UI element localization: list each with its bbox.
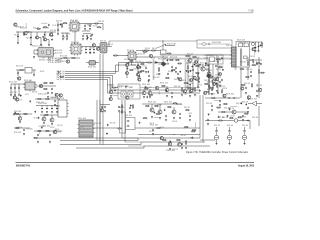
wire net SWB bbox=[141, 141, 205, 143]
capacitor C28 bbox=[256, 90, 258, 92]
capacitor C26 bbox=[256, 63, 258, 65]
capacitor C42 bbox=[49, 134, 51, 136]
wire bbox=[149, 89, 151, 91]
label bbox=[48, 57, 61, 64]
resistor R24 bbox=[216, 59, 221, 60]
ground bbox=[62, 38, 64, 40]
capacitor C80 bbox=[146, 96, 148, 98]
resistor R68 bbox=[223, 104, 228, 105]
resistor R73 bbox=[209, 76, 214, 77]
wire bbox=[83, 33, 91, 35]
label bbox=[82, 31, 91, 33]
svg-text:R101 10K: R101 10K bbox=[32, 46, 45, 48]
resistor R42 bbox=[122, 104, 123, 109]
label bbox=[55, 106, 60, 108]
svg-text:R101 10K: R101 10K bbox=[240, 61, 246, 63]
label bbox=[218, 117, 225, 119]
ground bbox=[229, 143, 231, 145]
label bbox=[119, 107, 125, 109]
wire bbox=[34, 53, 38, 55]
wire bbox=[167, 63, 170, 65]
part inside U0501b bbox=[244, 43, 248, 47]
capacitor C105 bbox=[241, 102, 243, 104]
label bbox=[236, 103, 243, 105]
resistor R69 bbox=[229, 118, 234, 119]
label bbox=[167, 44, 177, 46]
transistor Q45 bbox=[55, 93, 58, 96]
ground bbox=[129, 111, 131, 113]
ground bbox=[165, 119, 167, 121]
label bbox=[26, 129, 32, 131]
label bbox=[182, 80, 186, 82]
capacitor C37 bbox=[46, 107, 48, 109]
wire bbox=[126, 62, 128, 78]
label bbox=[244, 83, 251, 85]
svg-text:R101 10K: R101 10K bbox=[242, 125, 249, 127]
wire bbox=[136, 50, 163, 52]
resistor R23 bbox=[195, 73, 200, 74]
svg-text:R101 10K: R101 10K bbox=[127, 86, 132, 88]
svg-text:R101 10K: R101 10K bbox=[226, 45, 233, 47]
svg-text:R101 10K: R101 10K bbox=[246, 69, 253, 71]
svg-text:R101 10K: R101 10K bbox=[142, 50, 146, 52]
capacitor C94 bbox=[14, 112, 16, 114]
ground bbox=[190, 70, 192, 72]
svg-text:R101 10K: R101 10K bbox=[14, 35, 20, 37]
wire bbox=[137, 63, 139, 80]
capacitor C5 bbox=[57, 29, 59, 31]
label bbox=[214, 77, 222, 79]
capacitor C29 bbox=[17, 72, 19, 74]
resistor R57 bbox=[211, 98, 216, 99]
capacitor C14 bbox=[89, 48, 91, 50]
capacitor C34 bbox=[18, 87, 20, 89]
svg-text:R101 10K: R101 10K bbox=[93, 26, 97, 28]
svg-text:R101 10K: R101 10K bbox=[151, 58, 155, 60]
svg-text:R101 10K: R101 10K bbox=[117, 86, 122, 88]
ground bbox=[42, 36, 44, 38]
wire bbox=[256, 59, 262, 61]
label bbox=[117, 86, 122, 88]
ground bbox=[242, 119, 244, 121]
label bbox=[226, 45, 233, 47]
transistor Q57 bbox=[149, 54, 152, 57]
label bbox=[141, 62, 148, 64]
wire bbox=[40, 114, 60, 116]
svg-text:R101 10K: R101 10K bbox=[87, 24, 92, 26]
resistor R49 bbox=[156, 128, 161, 129]
wire bbox=[257, 103, 263, 105]
svg-text:R101 10K: R101 10K bbox=[18, 100, 22, 102]
label bbox=[160, 127, 164, 129]
ground bbox=[148, 79, 150, 81]
capacitor C75 bbox=[189, 84, 191, 86]
wire bbox=[44, 32, 46, 38]
ground bbox=[17, 77, 19, 79]
transistor Q11 bbox=[258, 88, 262, 92]
ground bbox=[14, 94, 16, 96]
label bbox=[107, 85, 115, 87]
wire bbox=[158, 91, 160, 95]
label bbox=[189, 113, 193, 115]
transistor Q27 bbox=[190, 79, 193, 82]
ground bbox=[23, 133, 25, 135]
resistor R31 bbox=[43, 83, 48, 84]
resistor R2 bbox=[25, 32, 30, 33]
ground bbox=[101, 110, 103, 112]
capacitor C106 bbox=[229, 108, 231, 110]
wire bbox=[19, 114, 21, 117]
wire bottom band bbox=[140, 87, 200, 89]
bus band RAW_B bbox=[185, 59, 187, 95]
svg-text:R101 10K: R101 10K bbox=[90, 47, 94, 49]
wire net V1 bbox=[135, 127, 200, 129]
transistor Q23 bbox=[142, 91, 146, 95]
fuse F0401 bbox=[198, 43, 230, 45]
transistor Q10 bbox=[207, 72, 211, 76]
capacitor C93 bbox=[34, 110, 36, 112]
wire bbox=[217, 56, 219, 92]
transistor Q15 bbox=[50, 118, 54, 122]
resistor R105 bbox=[142, 51, 147, 52]
capacitor C74 bbox=[188, 71, 190, 73]
svg-text:R101 10K: R101 10K bbox=[210, 55, 214, 57]
opto U0402b bbox=[128, 91, 133, 97]
resistor R90 bbox=[184, 127, 189, 128]
resistor R93 bbox=[173, 103, 178, 104]
svg-text:R101 10K: R101 10K bbox=[20, 28, 28, 30]
bus band VCC3 bbox=[164, 58, 231, 60]
wire bbox=[158, 63, 161, 65]
resistor R34 bbox=[37, 99, 42, 100]
ground bbox=[192, 88, 194, 90]
capacitor C96 bbox=[130, 104, 132, 106]
wire bbox=[33, 70, 35, 74]
resistor R53 bbox=[144, 88, 149, 89]
label bbox=[158, 59, 167, 61]
svg-text:R101 10K: R101 10K bbox=[244, 83, 251, 85]
svg-text:R101 10K: R101 10K bbox=[127, 50, 135, 52]
capacitor C59 bbox=[221, 79, 223, 81]
resistor R50 bbox=[162, 140, 167, 141]
capacitor C41 bbox=[37, 134, 39, 136]
box J0301 bbox=[58, 100, 67, 117]
capacitor C32 bbox=[10, 87, 12, 89]
ic pins bbox=[77, 124, 94, 133]
resistor R96 bbox=[240, 69, 245, 70]
wire bbox=[18, 84, 20, 94]
transistor Q38 bbox=[126, 96, 129, 99]
transistor Q33 bbox=[193, 76, 196, 79]
resistor R83 bbox=[36, 28, 41, 29]
label bbox=[57, 73, 61, 75]
svg-text:R101 10K: R101 10K bbox=[145, 87, 151, 89]
svg-text:R101 10K: R101 10K bbox=[156, 74, 160, 76]
ground bbox=[91, 34, 93, 36]
resistor R92 bbox=[143, 118, 148, 119]
svg-text:6881096C74-B: 6881096C74-B bbox=[16, 164, 30, 167]
label bbox=[98, 21, 105, 23]
capacitor C3 bbox=[51, 34, 53, 36]
ground bbox=[252, 61, 254, 63]
ground bbox=[211, 109, 213, 111]
svg-text:R101 10K: R101 10K bbox=[135, 61, 142, 63]
label bbox=[34, 117, 38, 119]
wire bbox=[16, 69, 36, 71]
label bbox=[124, 59, 131, 61]
label bbox=[88, 67, 97, 69]
resistor R9 bbox=[144, 50, 149, 51]
svg-text:R101 10K: R101 10K bbox=[218, 84, 222, 86]
capacitor C107 bbox=[87, 36, 89, 38]
label bbox=[57, 98, 65, 100]
junction bbox=[31, 32, 32, 33]
label bbox=[93, 26, 97, 28]
capacitor C72 bbox=[194, 63, 196, 65]
capacitor C12 bbox=[90, 35, 92, 37]
wire vertical net B bbox=[102, 54, 104, 145]
transistor Q40 bbox=[179, 78, 182, 81]
svg-text:August 26, 2005: August 26, 2005 bbox=[238, 164, 255, 167]
wire bbox=[36, 105, 64, 107]
capacitor C44 bbox=[104, 106, 106, 108]
label bbox=[14, 111, 22, 113]
filter FL0101 bbox=[89, 61, 96, 66]
capacitor C76 bbox=[221, 57, 223, 59]
ground bbox=[84, 28, 86, 30]
resistor R72 bbox=[187, 88, 192, 89]
diode D2 bbox=[126, 125, 129, 127]
wire net VSTBY bbox=[205, 97, 240, 99]
diode pack D0401 bbox=[161, 62, 167, 67]
wire bbox=[255, 42, 257, 46]
ground bbox=[185, 147, 187, 149]
svg-text:R101 10K: R101 10K bbox=[57, 73, 61, 75]
capacitor C77 bbox=[145, 86, 147, 88]
resistor R104 bbox=[167, 53, 172, 54]
ground bbox=[189, 95, 191, 97]
resistor R36 bbox=[15, 114, 20, 115]
resistor R30 bbox=[19, 70, 24, 71]
capacitor C91 bbox=[13, 113, 15, 115]
svg-text:R101 10K: R101 10K bbox=[189, 113, 193, 115]
resistor R7 bbox=[71, 58, 76, 59]
capacitor C61 bbox=[177, 73, 179, 75]
capacitor C19 bbox=[145, 67, 147, 69]
svg-text:R101 10K: R101 10K bbox=[172, 149, 177, 151]
transistor Q21 bbox=[178, 143, 182, 147]
svg-text:R101 10K: R101 10K bbox=[207, 81, 211, 83]
label bbox=[24, 80, 33, 82]
wire bbox=[100, 104, 110, 106]
label bbox=[190, 91, 194, 93]
ground bbox=[57, 33, 59, 35]
wire bbox=[240, 67, 242, 98]
wire bbox=[85, 47, 87, 49]
wire bbox=[122, 137, 138, 139]
ground bbox=[158, 73, 160, 75]
svg-text:Schematics, Component Location: Schematics, Component Location Diagrams,… bbox=[16, 8, 133, 12]
svg-text:R101 10K: R101 10K bbox=[172, 121, 177, 123]
label bbox=[127, 50, 135, 52]
ground bbox=[47, 96, 49, 98]
resistor R27 bbox=[248, 61, 249, 66]
wire bbox=[17, 70, 19, 76]
capacitor C110 bbox=[254, 46, 256, 48]
label bbox=[204, 80, 211, 82]
wire U0201 to U0301 bbox=[74, 31, 76, 44]
svg-text:R101 10K: R101 10K bbox=[196, 57, 200, 59]
svg-text:R101 10K: R101 10K bbox=[57, 98, 65, 100]
ground bbox=[250, 75, 252, 77]
resistor R85 bbox=[59, 76, 64, 77]
capacitor C58 bbox=[215, 65, 217, 67]
resistor R95 bbox=[256, 63, 261, 64]
wire bbox=[250, 41, 263, 43]
junction bbox=[18, 32, 19, 33]
resistor R81 bbox=[177, 63, 182, 64]
wire long bottom 1 bbox=[60, 138, 138, 141]
ground bbox=[173, 117, 175, 119]
resistor R3 bbox=[49, 35, 54, 36]
label bbox=[119, 86, 129, 88]
label bbox=[207, 81, 211, 83]
wire bbox=[57, 22, 59, 33]
capacitor C38 bbox=[51, 107, 53, 109]
svg-text:R101 10K: R101 10K bbox=[110, 123, 116, 125]
label bbox=[53, 25, 57, 27]
capacitor C90 bbox=[38, 117, 40, 119]
wire bbox=[162, 41, 164, 63]
ic pins bbox=[23, 80, 36, 91]
wire net VCAP bbox=[218, 111, 248, 113]
svg-text:R101 10K: R101 10K bbox=[26, 129, 32, 131]
label bbox=[71, 42, 80, 44]
wire bbox=[230, 106, 237, 108]
header rule bbox=[16, 12, 254, 14]
label bbox=[170, 57, 178, 59]
wire bbox=[23, 32, 25, 36]
resistor R22 bbox=[195, 66, 200, 67]
capacitor C16 bbox=[137, 64, 139, 66]
resistor R39 bbox=[15, 128, 20, 129]
label bbox=[100, 41, 107, 43]
box regulator U0501 bbox=[236, 42, 250, 68]
transistor Q48 bbox=[13, 96, 16, 99]
bus small box bbox=[161, 50, 167, 54]
svg-text:R101 10K: R101 10K bbox=[25, 94, 29, 96]
svg-text:R101 10K: R101 10K bbox=[24, 80, 33, 82]
resistor R11 bbox=[147, 62, 152, 63]
resistor R43 bbox=[133, 104, 134, 109]
label bbox=[227, 125, 234, 127]
label bbox=[160, 83, 169, 85]
label bbox=[63, 37, 69, 39]
wire vertical net A bbox=[99, 54, 101, 140]
capacitor C43 bbox=[101, 106, 103, 108]
capacitor C45 bbox=[118, 106, 120, 108]
capacitor C84 bbox=[128, 62, 130, 64]
label bbox=[110, 123, 116, 125]
transistor Q16 bbox=[53, 130, 57, 134]
capacitor C108 bbox=[90, 52, 92, 54]
wire bbox=[35, 98, 60, 100]
wire bbox=[249, 121, 251, 130]
resistor R70 bbox=[205, 92, 210, 93]
label bbox=[50, 97, 55, 99]
wire bbox=[199, 95, 201, 138]
label bbox=[216, 69, 222, 71]
label bbox=[149, 131, 154, 133]
ground bbox=[255, 50, 257, 52]
svg-text:R101 10K: R101 10K bbox=[226, 94, 235, 96]
capacitor C39 bbox=[56, 107, 58, 109]
resistor R98 bbox=[241, 85, 246, 86]
capacitor C100 bbox=[154, 111, 156, 113]
svg-text:R101 10K: R101 10K bbox=[249, 99, 258, 101]
capacitor C70 bbox=[222, 69, 224, 71]
label bbox=[163, 63, 169, 65]
wire bbox=[89, 24, 91, 25]
resistor R32 bbox=[49, 83, 54, 84]
transistor Q52 bbox=[241, 87, 244, 90]
label bbox=[184, 107, 191, 109]
label bbox=[57, 71, 66, 73]
wire inside U0501 bbox=[241, 49, 242, 67]
label bbox=[164, 102, 173, 104]
svg-text:R101 10K: R101 10K bbox=[153, 77, 159, 79]
ground bbox=[166, 95, 168, 97]
label bbox=[240, 42, 246, 44]
ground bbox=[33, 74, 35, 76]
wire bbox=[99, 100, 101, 144]
capacitor C60 bbox=[167, 73, 169, 75]
resistor R56 bbox=[195, 87, 196, 92]
label bbox=[195, 79, 200, 81]
label bbox=[196, 57, 200, 59]
capacitor C102 bbox=[245, 103, 247, 105]
wire bbox=[61, 32, 69, 34]
svg-text:R101 10K: R101 10K bbox=[190, 138, 194, 140]
capacitor C17 bbox=[255, 46, 257, 48]
resistor R75 bbox=[183, 83, 188, 84]
label bbox=[151, 58, 155, 60]
label bbox=[36, 102, 45, 104]
wire bbox=[125, 141, 141, 143]
svg-text:R101 10K: R101 10K bbox=[10, 92, 16, 94]
wire bbox=[25, 23, 27, 27]
capacitor C50 bbox=[152, 129, 154, 131]
svg-text:R101 10K: R101 10K bbox=[100, 41, 107, 43]
wire bus net 3 bbox=[65, 75, 118, 87]
label bbox=[250, 56, 256, 58]
resistor R21 bbox=[192, 57, 197, 58]
resistor R26 bbox=[217, 83, 218, 88]
ground bbox=[171, 70, 173, 72]
transistor Q4 bbox=[126, 64, 129, 67]
svg-text:R101 10K: R101 10K bbox=[50, 30, 56, 32]
junction bbox=[163, 50, 164, 51]
label bbox=[55, 53, 63, 55]
label bbox=[150, 123, 155, 125]
label bbox=[50, 30, 56, 32]
label bbox=[9, 82, 18, 84]
wire bbox=[89, 47, 91, 49]
transistor Q47 bbox=[59, 94, 62, 97]
wire bbox=[165, 45, 175, 47]
wire bbox=[189, 55, 191, 59]
ic pins bbox=[126, 50, 137, 61]
